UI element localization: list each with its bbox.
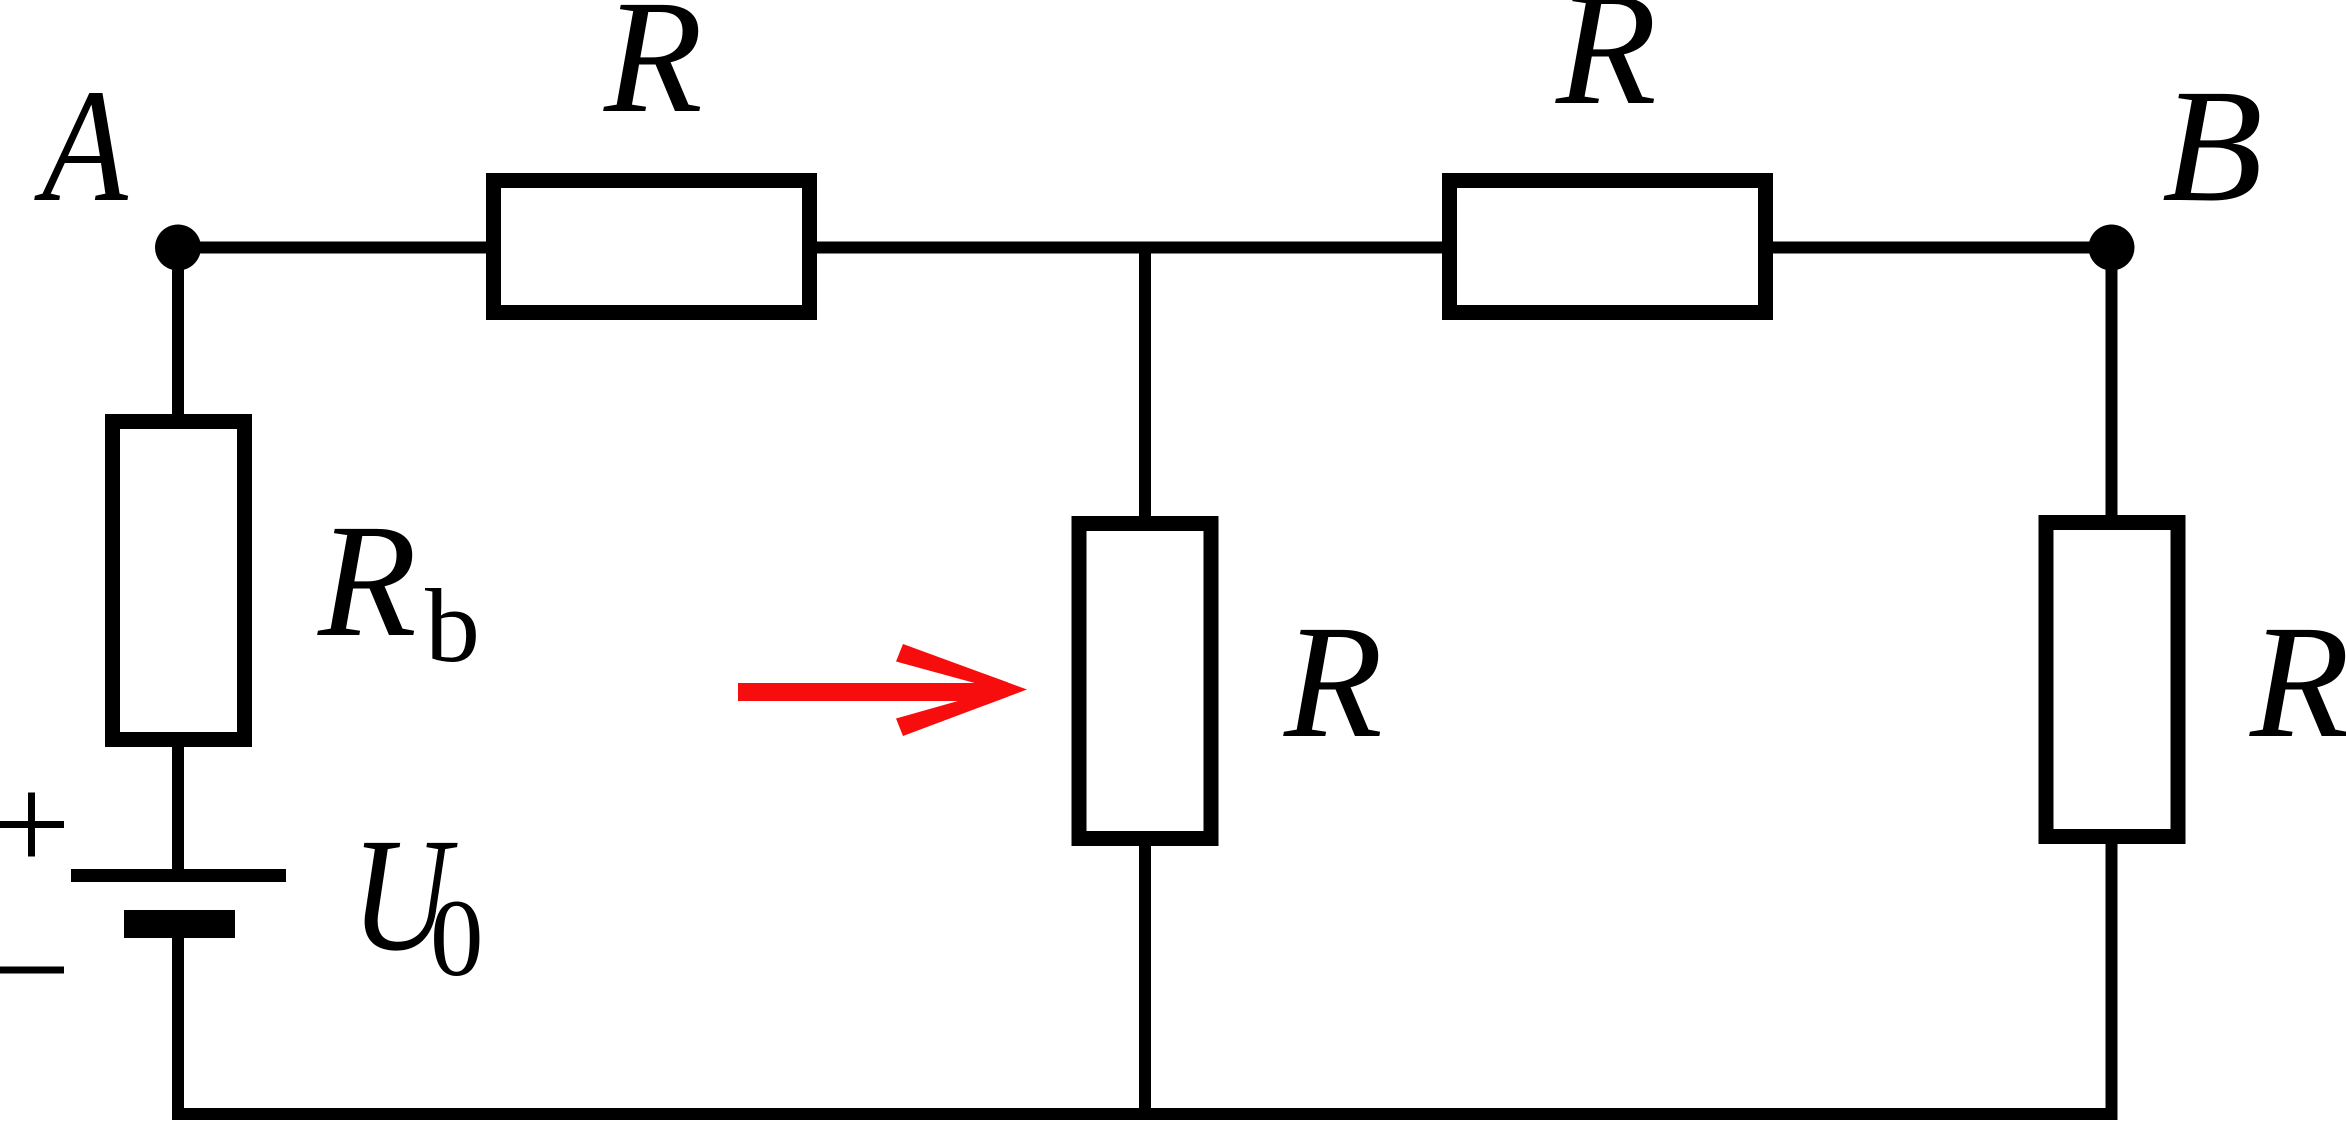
svg-text:B: B	[2162, 57, 2263, 236]
svg-text:R: R	[1555, 0, 1657, 139]
svg-text:R: R	[2249, 593, 2346, 772]
svg-text:A: A	[34, 57, 128, 236]
svg-text:R: R	[1283, 593, 1383, 772]
svg-text:0: 0	[430, 877, 484, 999]
svg-text:R: R	[603, 0, 703, 147]
svg-text:R: R	[317, 492, 417, 671]
svg-text:b: b	[425, 567, 480, 684]
